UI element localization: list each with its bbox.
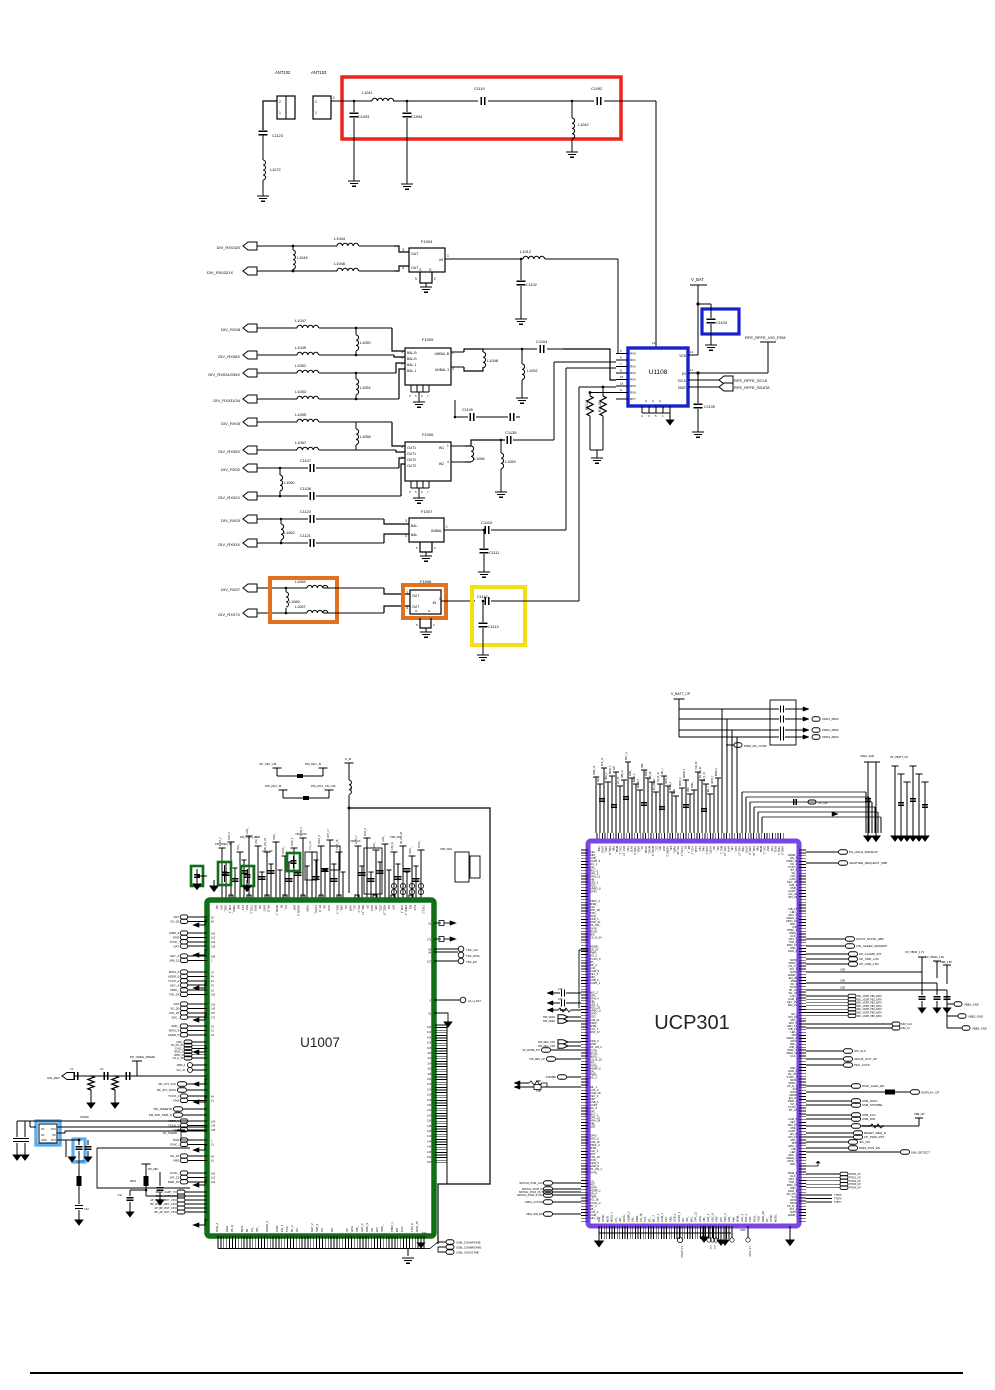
svg-text:IN1: IN1 <box>439 446 444 450</box>
svg-text:PM_ABC: PM_ABC <box>148 1168 158 1171</box>
svg-text:IN: IN <box>433 601 437 605</box>
svg-text:SYNC: SYNC <box>590 1170 598 1174</box>
svg-text:SDC_: SDC_ <box>598 775 600 782</box>
svg-text:MSM_3: MSM_3 <box>291 837 294 846</box>
svg-text:PMIC_: PMIC_ <box>646 768 648 776</box>
svg-text:CS_N_16: CS_N_16 <box>704 771 706 782</box>
svg-text:MOSI_2: MOSI_2 <box>275 905 279 916</box>
svg-text:VRE: VRE <box>741 846 745 852</box>
svg-text:VDD_MX: VDD_MX <box>390 835 401 839</box>
svg-text:INT_: INT_ <box>658 846 662 852</box>
svg-text:MIC_1: MIC_1 <box>719 846 723 854</box>
svg-text:SDAT: SDAT <box>678 386 686 390</box>
svg-text:L1058: L1058 <box>360 435 371 439</box>
svg-text:HW_VER2: HW_VER2 <box>543 1020 556 1023</box>
svg-text:CS_N_16: CS_N_16 <box>173 1057 184 1060</box>
svg-text:RXD_: RXD_ <box>773 846 777 854</box>
svg-text:RFE_RFFE_SCLK: RFE_RFFE_SCLK <box>734 378 768 383</box>
svg-text:TXB: TXB <box>536 1090 541 1093</box>
svg-text:SDC_: SDC_ <box>224 905 228 913</box>
svg-text:SPOCH_PCM_SYNC: SPOCH_PCM_SYNC <box>517 1193 543 1197</box>
svg-text:C30: C30 <box>558 988 563 991</box>
svg-text:MSM: MSM <box>759 846 763 853</box>
svg-text:UIM_1: UIM_1 <box>400 905 404 914</box>
svg-text:SDC_: SDC_ <box>237 843 240 850</box>
svg-text:VRE: VRE <box>597 846 601 852</box>
svg-text:C1111: C1111 <box>489 551 499 555</box>
svg-text:PWR: PWR <box>305 905 309 912</box>
svg-text:UNBAL.B: UNBAL.B <box>434 352 449 356</box>
svg-text:L1057: L1057 <box>295 440 307 445</box>
svg-text:CP_VBB_1.8V: CP_VBB_1.8V <box>935 960 952 964</box>
svg-text:12: 12 <box>652 341 656 345</box>
svg-text:VDD_6: VDD_6 <box>606 772 608 780</box>
svg-text:LCD_1: LCD_1 <box>656 1213 660 1222</box>
svg-text:DIV_RX02: DIV_RX02 <box>221 467 241 472</box>
svg-text:KEY_2: KEY_2 <box>310 1223 314 1232</box>
svg-text:DIV_RX0320: DIV_RX0320 <box>217 245 241 250</box>
svg-text:SIM_3: SIM_3 <box>315 1223 319 1232</box>
svg-text:BT_: BT_ <box>647 1217 651 1222</box>
svg-text:USB: USB <box>840 987 845 990</box>
svg-text:MSM_3: MSM_3 <box>169 931 179 935</box>
svg-text:ADAPTER_REQUEST_VBB: ADAPTER_REQUEST_VBB <box>849 861 887 865</box>
svg-text:UIM_21: UIM_21 <box>391 841 394 850</box>
svg-text:MOS: MOS <box>240 1225 244 1232</box>
svg-text:ADDR_5: ADDR_5 <box>665 846 669 857</box>
svg-text:HPH: HPH <box>727 846 731 852</box>
svg-text:VRE: VRE <box>642 763 644 768</box>
svg-text:VIB_: VIB_ <box>355 1225 359 1232</box>
svg-text:VDD_6: VDD_6 <box>633 846 637 855</box>
svg-text:CLK_10: CLK_10 <box>602 757 604 766</box>
svg-text:ADC_9: ADC_9 <box>365 1223 369 1232</box>
svg-text:GND: GND <box>225 1226 229 1232</box>
svg-text:C1: C1 <box>70 1067 74 1071</box>
svg-text:C1104: C1104 <box>536 339 548 344</box>
svg-text:RX4: RX4 <box>630 378 636 382</box>
svg-text:112: 112 <box>211 937 216 940</box>
svg-text:L1051: L1051 <box>295 363 307 368</box>
svg-text:511: 511 <box>422 1231 427 1235</box>
svg-text:RXD: RXD <box>173 936 179 940</box>
svg-text:4: 4 <box>447 460 449 464</box>
svg-text:VR: VR <box>370 1228 374 1232</box>
svg-text:OUT: OUT <box>411 252 419 256</box>
svg-text:KEY_4: KEY_4 <box>170 983 179 987</box>
svg-text:UIM_: UIM_ <box>727 1215 731 1222</box>
svg-text:2: 2 <box>279 100 281 104</box>
svg-text:2: 2 <box>315 100 317 104</box>
svg-text:KEY_4: KEY_4 <box>170 954 179 958</box>
svg-text:RST_17: RST_17 <box>590 1030 600 1034</box>
svg-text:NC: NC <box>41 1128 45 1131</box>
svg-text:CS_: CS_ <box>250 1226 254 1232</box>
svg-text:15: 15 <box>620 375 624 379</box>
svg-text:GPIO: GPIO <box>601 846 605 853</box>
svg-text:I2C_: I2C_ <box>353 905 357 911</box>
svg-text:RESD_UART_RX: RESD_UART_RX <box>155 1194 176 1198</box>
svg-text:ADDR_2: ADDR_2 <box>626 1211 630 1222</box>
svg-text:TXD: TXD <box>770 846 774 851</box>
svg-text:CLK: CLK <box>241 905 245 911</box>
svg-text:SIM_: SIM_ <box>701 846 705 853</box>
svg-text:1: 1 <box>447 444 449 448</box>
svg-text:XO_18: XO_18 <box>639 1213 643 1222</box>
svg-text:CS_N_16: CS_N_16 <box>336 839 339 850</box>
svg-text:HW_REV_CP1: HW_REV_CP1 <box>538 1041 556 1044</box>
svg-text:ADDR_5: ADDR_5 <box>168 975 179 979</box>
svg-text:F1005: F1005 <box>422 337 434 342</box>
svg-text:DIV_RX031/034X: DIV_RX031/034X <box>208 372 240 377</box>
svg-text:CP_VBOR_1.7V: CP_VBOR_1.7V <box>905 950 924 954</box>
svg-text:VRE: VRE <box>173 1159 179 1163</box>
svg-text:CP_PWR_RST: CP_PWR_RST <box>864 1135 885 1139</box>
svg-text:OUT2: OUT2 <box>407 458 416 462</box>
svg-text:1: 1 <box>315 111 317 115</box>
svg-text:CP_32K: CP_32K <box>818 801 828 805</box>
svg-text:BT_16: BT_16 <box>789 1108 797 1112</box>
svg-text:BAL.B: BAL.B <box>407 357 417 361</box>
svg-text:11: 11 <box>690 368 693 372</box>
svg-text:SCLK: SCLK <box>678 379 687 383</box>
svg-text:STROBE: STROBE <box>546 1076 557 1079</box>
svg-text:SD1_VDDP_PB5_DATA: SD1_VDDP_PB5_DATA <box>857 1012 882 1015</box>
svg-text:C1092: C1092 <box>591 87 602 91</box>
svg-text:LCD: LCD <box>327 905 331 911</box>
svg-text:1: 1 <box>279 111 281 115</box>
svg-text:PMIC_: PMIC_ <box>273 832 276 840</box>
svg-text:SD1_VDDP_PB2_DATA: SD1_VDDP_PB2_DATA <box>857 1002 882 1005</box>
svg-text:2: 2 <box>401 456 403 460</box>
svg-text:KEY: KEY <box>664 1216 668 1222</box>
svg-text:VR: VR <box>215 905 219 909</box>
svg-text:LCD_22: LCD_22 <box>169 1011 180 1015</box>
svg-text:RST_: RST_ <box>766 846 770 853</box>
svg-text:RF_ATT_CLK: RF_ATT_CLK <box>159 1082 176 1086</box>
svg-text:14: 14 <box>690 350 694 354</box>
svg-text:ANT103: ANT103 <box>311 70 327 75</box>
svg-text:L1052: L1052 <box>527 369 538 373</box>
svg-text:TCX: TCX <box>643 1216 647 1222</box>
svg-text:XO_26: XO_26 <box>618 776 620 784</box>
svg-text:XO_THERM: XO_THERM <box>163 1131 177 1135</box>
svg-text:MISO_9: MISO_9 <box>169 970 180 974</box>
svg-text:DIV_RX03X: DIV_RX03X <box>218 542 240 547</box>
svg-text:PM_KPD_PWR_N: PM_KPD_PWR_N <box>149 1113 172 1117</box>
svg-text:CLK: CLK <box>413 905 417 911</box>
svg-text:MSM_: MSM_ <box>736 1214 740 1222</box>
svg-text:RFE_RFFE_VIO_FEM: RFE_RFFE_VIO_FEM <box>745 335 785 340</box>
svg-text:9: 9 <box>401 356 403 360</box>
svg-text:SIM_: SIM_ <box>340 905 344 912</box>
svg-text:VDD: VDD <box>679 354 686 358</box>
svg-text:OUT1: OUT1 <box>407 452 416 456</box>
svg-text:C1121: C1121 <box>300 534 311 538</box>
svg-text:SPI_: SPI_ <box>716 846 720 852</box>
svg-text:GND: GND <box>41 1139 47 1142</box>
svg-text:VREG_S2B: VREG_S2B <box>860 754 874 758</box>
svg-text:DIV_RX02X: DIV_RX02X <box>218 495 240 500</box>
svg-text:C1119: C1119 <box>474 87 485 91</box>
svg-text:L1062: L1062 <box>284 531 295 535</box>
svg-text:BAL.B: BAL.B <box>407 351 417 355</box>
svg-text:I2C: I2C <box>330 1228 334 1232</box>
svg-text:SDC_: SDC_ <box>604 846 608 854</box>
svg-text:LED_: LED_ <box>734 846 738 853</box>
svg-text:VIB_: VIB_ <box>730 846 734 852</box>
svg-text:RFE_SW_EN: RFE_SW_EN <box>527 1212 543 1216</box>
svg-text:TXD: TXD <box>626 846 630 851</box>
svg-text:VDD_PX3: VDD_PX3 <box>295 832 307 836</box>
svg-text:PDA_ACT#: PDA_ACT# <box>854 1063 870 1067</box>
svg-text:MSM_3: MSM_3 <box>177 1064 186 1067</box>
svg-text:SDC_6: SDC_6 <box>748 846 752 855</box>
svg-text:RX7: RX7 <box>630 397 636 401</box>
svg-text:EN_: EN_ <box>631 1216 635 1222</box>
svg-text:AP_BP_RST_CP1: AP_BP_RST_CP1 <box>155 1206 177 1210</box>
svg-text:UART_1: UART_1 <box>677 1211 681 1222</box>
svg-text:IN2: IN2 <box>439 462 444 466</box>
svg-text:L1060: L1060 <box>284 481 295 485</box>
svg-text:MS: MS <box>409 905 413 909</box>
svg-text:U1108: U1108 <box>649 369 668 376</box>
svg-text:127: 127 <box>427 960 432 963</box>
svg-text:SP: SP <box>345 1228 349 1232</box>
svg-text:PWR_: PWR_ <box>673 846 677 854</box>
svg-text:RXD_15: RXD_15 <box>415 1221 419 1232</box>
svg-text:INT_23: INT_23 <box>170 1176 180 1180</box>
svg-text:PWR: PWR <box>275 1225 279 1232</box>
svg-text:US: US <box>344 905 348 909</box>
svg-text:3: 3 <box>406 591 408 595</box>
svg-text:PA_: PA_ <box>765 1217 769 1222</box>
svg-text:X1000: X1000 <box>80 1115 89 1119</box>
svg-text:C1103: C1103 <box>716 321 727 325</box>
svg-text:136: 136 <box>211 1125 216 1128</box>
svg-text:RX1: RX1 <box>630 358 636 362</box>
svg-text:DIV_RX031/34: DIV_RX031/34 <box>213 398 240 403</box>
svg-text:AP_USB_1.8V: AP_USB_1.8V <box>859 962 879 966</box>
svg-text:DIV_RX05X: DIV_RX05X <box>218 449 240 454</box>
svg-text:CLK_10: CLK_10 <box>309 841 312 850</box>
svg-text:DISPLAY_CP: DISPLAY_CP <box>921 1091 939 1095</box>
svg-text:ANT102: ANT102 <box>275 70 291 75</box>
svg-text:SPI_31: SPI_31 <box>788 895 797 899</box>
svg-text:VBB3_GND: VBB3_GND <box>972 1026 987 1030</box>
svg-text:TXD_24: TXD_24 <box>650 771 652 780</box>
svg-text:DAT: DAT <box>662 846 666 852</box>
svg-text:KEY: KEY <box>698 846 702 852</box>
svg-text:V_BATT_CP: V_BATT_CP <box>671 692 691 696</box>
svg-text:SD1_VDDP_PB4_DATA: SD1_VDDP_PB4_DATA <box>857 1008 882 1011</box>
svg-text:BAL.1: BAL.1 <box>407 363 416 367</box>
svg-text:MISO_9: MISO_9 <box>169 1029 180 1033</box>
svg-text:UIM_21: UIM_21 <box>622 769 624 778</box>
svg-text:L1047: L1047 <box>295 318 307 323</box>
svg-text:NC: NC <box>52 1134 56 1137</box>
svg-text:F1004: F1004 <box>421 239 433 244</box>
svg-text:USB_CSABNOWE: USB_CSABNOWE <box>456 1245 481 1249</box>
svg-text:CAM_2: CAM_2 <box>660 1213 664 1222</box>
svg-text:TSIF_CLK: TSIF_CLK <box>466 948 478 952</box>
svg-text:JIG_ON: JIG_ON <box>859 1140 870 1144</box>
svg-text:BT_: BT_ <box>683 846 687 851</box>
svg-text:USB: USB <box>840 980 845 983</box>
svg-text:CP_TEST: CP_TEST <box>748 1246 751 1257</box>
svg-text:2: 2 <box>401 362 403 366</box>
svg-text:EN_1: EN_1 <box>708 786 710 792</box>
svg-text:DISP_ALED_EN: DISP_ALED_EN <box>862 1084 884 1088</box>
svg-text:R1017: R1017 <box>585 400 589 410</box>
svg-text:UIM_21: UIM_21 <box>169 959 179 963</box>
svg-text:I2C: I2C <box>712 846 716 850</box>
svg-text:R1018: R1018 <box>598 402 602 412</box>
svg-text:SYNC: SYNC <box>644 846 648 854</box>
svg-text:VIB_: VIB_ <box>702 1216 706 1222</box>
svg-text:RX0: RX0 <box>630 352 636 356</box>
svg-text:PA_ON_20: PA_ON_20 <box>699 766 702 778</box>
svg-text:USB: USB <box>840 969 845 972</box>
svg-text:L1065: L1065 <box>295 580 306 584</box>
svg-text:C1094: C1094 <box>411 115 422 119</box>
svg-text:SIM_27: SIM_27 <box>788 1003 798 1007</box>
svg-text:DAT: DAT <box>174 944 180 948</box>
svg-text:PA_: PA_ <box>640 846 644 851</box>
svg-text:WS_KEY_B: WS_KEY_B <box>265 784 281 788</box>
svg-text:L1048: L1048 <box>487 358 499 363</box>
svg-text:MOSI_: MOSI_ <box>773 1213 777 1222</box>
svg-text:MOSI_2: MOSI_2 <box>610 765 612 774</box>
svg-text:UIM_2: UIM_2 <box>228 905 232 914</box>
svg-text:TXD_1: TXD_1 <box>421 905 425 914</box>
svg-text:CLK: CLK <box>400 1226 404 1232</box>
svg-text:RXD: RXD <box>173 1138 179 1142</box>
svg-text:USB_STROBE: USB_STROBE <box>862 1103 882 1107</box>
svg-text:DAT: DAT <box>292 905 296 911</box>
svg-text:DIV_RX03: DIV_RX03 <box>221 518 241 523</box>
svg-text:1: 1 <box>447 254 449 258</box>
svg-text:4: 4 <box>405 534 407 538</box>
svg-text:GND_: GND_ <box>246 827 249 834</box>
svg-text:SPI_: SPI_ <box>685 1216 689 1222</box>
svg-text:OUT: OUT <box>51 1139 57 1142</box>
svg-text:2: 2 <box>434 277 436 281</box>
svg-text:PA_ON_20: PA_ON_20 <box>264 837 267 850</box>
svg-text:LTE_SLEEP_WAKEUP: LTE_SLEEP_WAKEUP <box>856 944 887 948</box>
svg-text:V_BAT: V_BAT <box>691 277 704 282</box>
svg-text:L1050: L1050 <box>360 341 371 345</box>
svg-text:MSM_: MSM_ <box>615 846 619 854</box>
svg-text:F1006: F1006 <box>422 432 434 437</box>
svg-text:VIB_: VIB_ <box>374 905 378 912</box>
svg-text:5: 5 <box>415 277 417 281</box>
svg-text:RST_1: RST_1 <box>744 1213 748 1222</box>
svg-text:HPH: HPH <box>350 1226 354 1232</box>
svg-text:MI: MI <box>245 1229 249 1232</box>
svg-text:KEY_4: KEY_4 <box>335 905 339 914</box>
svg-text:MIC_: MIC_ <box>689 1215 693 1222</box>
svg-text:ADDR_5: ADDR_5 <box>683 768 686 778</box>
svg-text:IN: IN <box>439 258 443 262</box>
svg-text:L1045: L1045 <box>297 256 308 260</box>
svg-text:L1054: L1054 <box>360 386 371 390</box>
svg-text:100: 100 <box>211 1172 216 1175</box>
svg-text:DIV_RX05: DIV_RX05 <box>221 421 241 426</box>
svg-text:124: 124 <box>211 941 216 944</box>
svg-text:CP_MODE: CP_MODE <box>680 1246 683 1258</box>
svg-text:8: 8 <box>401 350 403 354</box>
svg-text:PS_HOLD_WAKEUP: PS_HOLD_WAKEUP <box>849 850 878 854</box>
svg-text:100: 100 <box>211 932 216 935</box>
svg-text:GPIO_7: GPIO_7 <box>712 775 714 784</box>
svg-text:HPH: HPH <box>698 1216 702 1222</box>
svg-text:3: 3 <box>402 248 404 252</box>
svg-text:ADC_9: ADC_9 <box>710 1213 714 1222</box>
svg-text:SIM_DETECT: SIM_DETECT <box>911 1151 930 1155</box>
svg-text:MISO_9: MISO_9 <box>651 846 655 856</box>
svg-text:GPI: GPI <box>375 1227 379 1232</box>
svg-text:L1055: L1055 <box>295 412 307 417</box>
svg-text:GND_29: GND_29 <box>761 1211 765 1222</box>
svg-text:RX3: RX3 <box>630 371 636 375</box>
svg-text:ADDR_5: ADDR_5 <box>168 1033 179 1037</box>
svg-text:L1012: L1012 <box>520 249 532 254</box>
svg-text:OUT: OUT <box>412 594 419 598</box>
svg-text:HSPA_ACTIVE: HSPA_ACTIVE <box>525 1200 544 1204</box>
svg-text:SYNC_: SYNC_ <box>282 845 285 854</box>
svg-text:CS_: CS_ <box>614 1216 618 1222</box>
svg-text:GND: GND <box>262 905 266 911</box>
svg-text:MISO_9: MISO_9 <box>680 777 682 786</box>
svg-text:I/O: I/O <box>682 372 687 376</box>
svg-text:VCC: VCC <box>51 1128 56 1131</box>
svg-text:DAT: DAT <box>174 1002 180 1006</box>
svg-text:USB_DIR: USB_DIR <box>862 1117 876 1121</box>
svg-text:XO_26: XO_26 <box>676 846 680 855</box>
svg-text:INT_: INT_ <box>618 1216 622 1222</box>
svg-text:8: 8 <box>401 445 403 449</box>
svg-text:MSM_RF_CONF: MSM_RF_CONF <box>744 744 767 748</box>
svg-text:TCXO_1: TCXO_1 <box>168 979 179 983</box>
svg-text:VDD2_MMC: VDD2_MMC <box>822 728 840 732</box>
svg-text:ADC_17: ADC_17 <box>383 905 387 916</box>
svg-text:GPIO: GPIO <box>745 846 749 853</box>
svg-text:SIM_IO: SIM_IO <box>901 1026 910 1030</box>
svg-text:VDD_CX: VDD_CX <box>350 839 361 843</box>
svg-text:XO_1: XO_1 <box>280 1224 284 1232</box>
svg-text:FB10: FB10 <box>130 1180 137 1183</box>
svg-text:C1109: C1109 <box>462 408 473 412</box>
svg-text:MISO_1: MISO_1 <box>610 1212 614 1222</box>
svg-text:USB_1: USB_1 <box>673 1213 677 1222</box>
svg-text:VRE: VRE <box>715 1216 719 1222</box>
svg-text:USB_CSAHPONE: USB_CSAHPONE <box>456 1240 481 1244</box>
svg-text:MSM_PON_EN: MSM_PON_EN <box>859 1146 880 1150</box>
svg-text:I2C: I2C <box>681 1218 685 1222</box>
svg-text:SIM_: SIM_ <box>668 1215 672 1222</box>
svg-text:X_OUT: X_OUT <box>76 1160 85 1163</box>
svg-text:GND_: GND_ <box>637 846 641 854</box>
svg-text:L1049: L1049 <box>295 345 307 350</box>
svg-text:XXX: XXX <box>713 1245 715 1250</box>
svg-text:SDC_: SDC_ <box>380 1224 384 1232</box>
svg-text:C2: C2 <box>100 1067 104 1071</box>
svg-text:CP_VDD_1.8V: CP_VDD_1.8V <box>859 957 879 961</box>
svg-text:PWR_: PWR_ <box>635 1214 639 1222</box>
svg-text:L1044: L1044 <box>334 236 346 241</box>
svg-text:CAM: CAM <box>694 846 698 853</box>
